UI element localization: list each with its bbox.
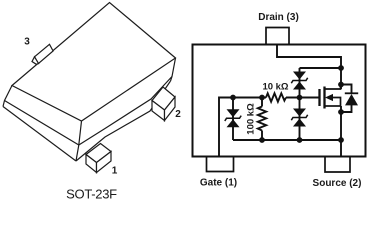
wire left zener column <box>232 98 234 141</box>
node source / D1 anode <box>338 109 344 115</box>
svg-text:2: 2 <box>175 109 181 120</box>
package bevel bottom-right edge <box>79 77 172 146</box>
package right corner edge <box>171 58 176 81</box>
svg-text:3: 3 <box>24 37 30 48</box>
node gate rail / Z2-Z3 junction <box>297 95 303 101</box>
source tab (pin 2) <box>325 157 350 172</box>
wire bottom rail <box>233 139 341 141</box>
pin 2 lead <box>152 87 175 110</box>
mosfet drain stub <box>325 85 341 90</box>
pin 1 lead <box>86 144 111 163</box>
svg-text:SOT-23F: SOT-23F <box>66 187 117 202</box>
resistor R1 10 kOhm zigzag <box>266 93 286 101</box>
diode D1 body loop <box>341 85 352 94</box>
diode D1 cathode bar <box>345 92 358 94</box>
node gate rail / R2 top <box>259 95 265 101</box>
package bevel bottom-left edge <box>5 101 79 146</box>
schematic package outline box <box>193 45 366 157</box>
gate tab (pin 1) <box>207 157 234 172</box>
pin 3 lead <box>35 44 54 63</box>
drain tab (pin 3) <box>266 28 289 45</box>
wire drain branch to zeners <box>300 67 342 69</box>
node bottom rail / source wire <box>338 137 344 143</box>
package bottom-left edge <box>3 107 76 162</box>
wire gate rail to mosfet gate <box>286 97 320 99</box>
zener pair Z3 drain-gate lower <box>291 109 307 127</box>
svg-text:100 kΩ: 100 kΩ <box>246 103 257 135</box>
mosfet Q1 <box>320 85 341 109</box>
wire gate lead vertical <box>219 98 266 157</box>
package left corner edge <box>3 86 12 107</box>
mosfet channel line <box>323 87 325 109</box>
resistor R2 100 kOhm leads <box>261 98 263 107</box>
wire middle zener column <box>299 68 301 140</box>
svg-text:1: 1 <box>112 166 118 177</box>
node gate rail / Z1 top <box>230 95 236 101</box>
svg-text:Gate (1): Gate (1) <box>200 178 237 189</box>
mosfet gate plate <box>318 89 320 106</box>
node bottom rail / Z3 bottom <box>297 137 303 143</box>
mosfet body stub <box>331 98 341 107</box>
svg-text:Drain (3): Drain (3) <box>258 12 299 23</box>
resistor R2 100 kOhm zigzag <box>258 107 266 131</box>
wire source vertical <box>340 106 342 157</box>
svg-text:10 kΩ: 10 kΩ <box>262 82 288 93</box>
zener pair Z2 drain-gate upper <box>291 72 307 90</box>
node drain / D1 cathode <box>338 82 344 88</box>
diode D1 triangle <box>345 94 358 105</box>
svg-text:Source (2): Source (2) <box>313 178 362 189</box>
wire drain lead from tab <box>277 44 341 89</box>
mosfet body arrow <box>325 94 333 101</box>
node bottom rail / R2 bottom <box>259 137 265 143</box>
package body top face <box>12 3 176 122</box>
package bottom-right edge <box>76 81 171 161</box>
mosfet source stub <box>325 105 341 107</box>
node drain branch to Z2 <box>338 65 344 71</box>
package front corner edge <box>76 121 82 161</box>
zener pair Z1 gate-source (left) <box>225 109 241 127</box>
